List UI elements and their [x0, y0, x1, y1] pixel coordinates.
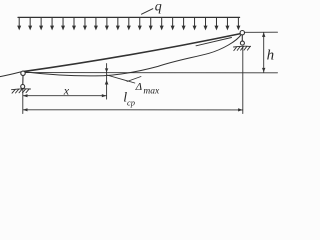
- svg-text:max: max: [143, 86, 160, 96]
- svg-text:q: q: [155, 0, 162, 14]
- svg-text:Δ: Δ: [135, 81, 142, 93]
- svg-text:x: x: [63, 83, 70, 97]
- svg-text:cp: cp: [127, 98, 135, 108]
- svg-text:h: h: [267, 48, 275, 64]
